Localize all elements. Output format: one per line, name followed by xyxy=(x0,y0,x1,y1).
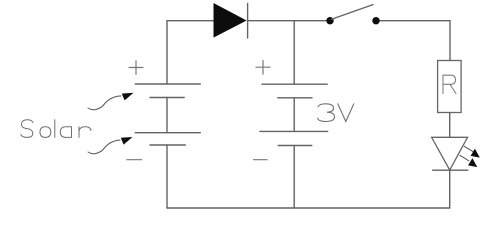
battery B1 plates xyxy=(260,84,328,145)
wire right vertical into resistor xyxy=(449,21,451,61)
wire LED to bottom xyxy=(449,170,451,208)
wire diode cathode to switch xyxy=(248,20,327,22)
solar plus sign xyxy=(129,61,143,75)
solar arrow upper xyxy=(88,93,134,110)
resistor R xyxy=(438,61,462,113)
solar arrow lower xyxy=(88,137,133,154)
wire left vertical bottom xyxy=(166,145,168,208)
diode D1 xyxy=(214,3,248,38)
label Solar xyxy=(21,120,91,138)
switch S1 xyxy=(326,5,379,25)
wire top-left horizontal xyxy=(167,20,214,22)
solar cell plates xyxy=(135,84,200,145)
wire solar cell middle xyxy=(166,98,168,133)
wire resistor to LED xyxy=(449,113,451,138)
battery minus sign xyxy=(254,159,268,161)
wire left vertical top xyxy=(166,21,168,84)
LED light arrow 2 xyxy=(460,155,477,167)
wire battery middle xyxy=(293,98,295,132)
label 3V xyxy=(318,104,354,122)
LED light arrow 1 xyxy=(464,146,480,157)
wire battery top vertical xyxy=(293,21,295,84)
battery plus sign xyxy=(256,61,270,75)
wire battery bottom vertical xyxy=(293,146,295,209)
wire switch to right corner xyxy=(379,20,450,22)
solar minus sign xyxy=(127,159,142,161)
LED D2 xyxy=(432,137,468,170)
wire bottom horizontal xyxy=(167,207,450,209)
